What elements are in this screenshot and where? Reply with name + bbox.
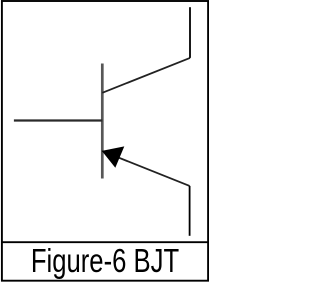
base bar of transistor bbox=[101, 64, 104, 179]
caption box separator line bbox=[2, 241, 209, 243]
wire: base lead (left horizontal) bbox=[14, 119, 102, 121]
emitter diagonal lead bbox=[102, 151, 189, 186]
wire: emitter vertical to bottom bbox=[189, 186, 191, 236]
outer border frame of figure bbox=[2, 1, 208, 281]
collector diagonal lead bbox=[102, 58, 190, 93]
transistor Q1 (PNP BJT symbol) bbox=[102, 58, 190, 186]
emitter arrowhead pointing into base (PNP) bbox=[102, 146, 125, 167]
svg-text:Figure-6 BJT: Figure-6 BJT bbox=[31, 243, 179, 280]
wire: collector vertical to top bbox=[189, 7, 191, 58]
